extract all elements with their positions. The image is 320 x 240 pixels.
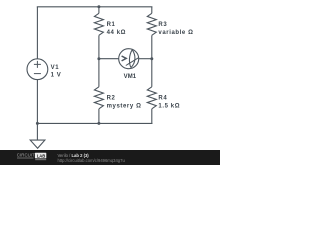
svg-text:variable Ω: variable Ω <box>158 30 193 36</box>
ground stub wire <box>36 123 38 140</box>
wire: voltmeter left lead <box>99 58 119 60</box>
voltmeter VM1 body <box>119 49 139 69</box>
wire: R1 top stub from top net <box>98 7 100 14</box>
svg-text:http://circuitlab.com/c/9496mq: http://circuitlab.com/c/9496mq34g7u <box>58 158 126 163</box>
wire: voltmeter node down to R2 top <box>98 59 100 87</box>
wire: top horizontal net from left rail to R3 branch <box>37 6 153 8</box>
node: junction R3 rail / voltmeter right <box>150 57 153 60</box>
wire: R3 top stub <box>151 7 153 14</box>
svg-text:44 kΩ: 44 kΩ <box>107 30 127 36</box>
node: junction top net / R1 <box>97 5 100 8</box>
resistor R1 zigzag <box>94 13 103 35</box>
svg-text:V1: V1 <box>51 65 60 71</box>
voltage source V1 body <box>27 59 48 80</box>
wire: voltmeter right lead <box>139 58 152 60</box>
VM1 needle <box>126 57 139 65</box>
wire: R2 bottom to bottom net <box>98 109 100 124</box>
wire: V1 bottom to bottom net <box>36 80 38 124</box>
CircuitLab logo lower reflection marks <box>17 157 34 159</box>
V1 minus sign <box>34 73 41 75</box>
wire: R4 bottom to bottom net <box>151 109 153 124</box>
node: junction R1 rail / voltmeter left <box>97 57 100 60</box>
wire: R3 bottom to voltmeter node <box>151 35 153 58</box>
wire: R1 bottom to voltmeter node <box>98 35 100 58</box>
svg-text:LAB: LAB <box>37 153 46 158</box>
VM1 meter left arc <box>129 50 132 68</box>
wire: left rail from V1 top up to top-left corner <box>36 7 38 59</box>
svg-text:R2: R2 <box>107 96 116 102</box>
resistor R4 zigzag <box>147 87 156 109</box>
svg-text:R4: R4 <box>158 96 167 102</box>
VM1 meter right arc <box>131 50 135 68</box>
VM1 arrow glyph <box>122 56 127 61</box>
svg-text:CIRCUIT: CIRCUIT <box>17 153 36 158</box>
resistor R3 zigzag <box>147 13 156 35</box>
svg-text:1.5 kΩ: 1.5 kΩ <box>158 104 180 110</box>
CircuitLab logo LAB box <box>35 153 46 159</box>
node: junction bottom net / V1 / ground <box>36 122 39 125</box>
node: junction bottom net / R2 <box>97 122 100 125</box>
wire: voltmeter node down to R4 top <box>151 59 153 87</box>
CircuitLab logo lower LAB reflection <box>35 159 46 160</box>
svg-text:mystery Ω: mystery Ω <box>107 104 142 110</box>
resistor R2 zigzag <box>94 87 103 109</box>
svg-text:1 V: 1 V <box>51 72 62 78</box>
wire: bottom horizontal net <box>37 122 152 124</box>
V1 plus sign <box>34 61 41 68</box>
ground symbol triangle <box>30 140 45 148</box>
svg-text:VM1: VM1 <box>124 74 137 80</box>
svg-text:R3: R3 <box>158 22 167 28</box>
svg-text:R1: R1 <box>107 22 116 28</box>
CircuitLab watermark bar <box>0 150 220 165</box>
